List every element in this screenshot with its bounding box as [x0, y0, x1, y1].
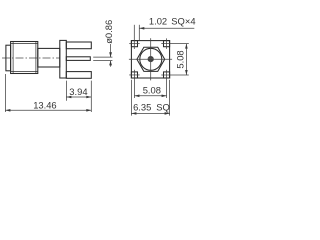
arrow b5.08 left	[134, 95, 139, 98]
1.02 dim line	[139, 27, 194, 29]
arrow b5.08 right	[162, 95, 167, 98]
svg-text:SQ×4: SQ×4	[171, 16, 195, 27]
3.94 extension line left	[65, 81, 67, 101]
side view: bottom leg	[66, 72, 91, 79]
leg TR vertical centerline	[166, 38, 168, 49]
arrow pin dia up	[109, 61, 112, 66]
svg-text:SQ: SQ	[156, 101, 170, 112]
svg-text:5.08: 5.08	[143, 84, 161, 95]
arrow pin dia down	[109, 52, 112, 57]
thread runout left	[12, 42, 14, 74]
arrow 3.94 left	[66, 96, 71, 99]
side view: center pin	[66, 57, 90, 61]
6.35 ext line left	[130, 80, 132, 116]
leg BL horizontal centerline	[129, 74, 140, 76]
arrow 3.94 right	[86, 96, 91, 99]
svg-text:ø0.86: ø0.86	[103, 20, 114, 44]
side view: threaded body	[11, 42, 38, 74]
pin dot highlight cross	[148, 56, 154, 62]
svg-text:3.94: 3.94	[69, 86, 87, 97]
leg TL vertical centerline / 1.02 ext	[133, 25, 135, 49]
svg-text:13.46: 13.46	[33, 99, 56, 110]
side view: barrel	[38, 48, 60, 67]
arrow 13.46 left	[5, 109, 10, 112]
1.02 ext line right	[138, 25, 140, 41]
thread runout right	[35, 42, 37, 74]
pin dia dim line upper	[110, 44, 112, 57]
front view horizontal centerline	[129, 58, 172, 60]
arrow r5.08 up	[185, 44, 188, 49]
leg BR vertical centerline / 5.08 ext right	[166, 70, 168, 98]
leg BL vertical centerline / 5.08 ext left	[133, 70, 135, 98]
side view centerline	[2, 57, 60, 59]
pin dia dim line lower	[110, 61, 112, 67]
leg TR horizontal centerline / 5.08 ext top	[161, 43, 189, 45]
svg-text:1.02: 1.02	[149, 16, 167, 27]
front view: center pin dot	[148, 56, 154, 62]
arrow r5.08 down	[185, 70, 188, 75]
leg BR horizontal centerline / 5.08 ext bottom	[161, 74, 189, 76]
arrow 6.35 left	[131, 112, 136, 115]
13.46 extension line left	[4, 74, 6, 112]
leg TL horizontal centerline	[129, 43, 140, 45]
thread depth line bottom	[11, 71, 38, 73]
right 5.08 dim line	[185, 44, 187, 75]
6.35 dim line	[131, 112, 169, 114]
front view: leg BL	[131, 72, 137, 78]
front view: hex nut outline	[137, 47, 165, 71]
pin dia extension line bottom	[93, 60, 112, 62]
pin dia extension line top	[93, 56, 112, 58]
front view: leg TL	[131, 41, 137, 47]
front view: leg BR	[164, 72, 170, 78]
6.35 ext line right	[169, 80, 171, 116]
arrow 13.46 right	[86, 109, 91, 112]
front view: dielectric circle	[140, 48, 162, 70]
side view: flange	[60, 40, 67, 78]
side view: top leg	[66, 42, 91, 49]
svg-text:5.08: 5.08	[175, 50, 186, 68]
3.94 dim line	[66, 96, 91, 98]
thread depth line top	[11, 42, 38, 44]
front view vertical centerline	[150, 38, 152, 80]
front view: flange square	[131, 41, 169, 78]
13.46 dim line	[5, 109, 91, 111]
arrow 6.35 right	[165, 112, 170, 115]
bottom 5.08 dim line	[134, 95, 166, 97]
side view: coupling ring front lip	[6, 45, 11, 71]
arrow 1.02 left	[139, 27, 144, 30]
3.94/13.46 shared extension line right	[90, 81, 92, 112]
svg-text:6.35: 6.35	[133, 101, 151, 112]
front view: leg TR	[164, 41, 170, 47]
